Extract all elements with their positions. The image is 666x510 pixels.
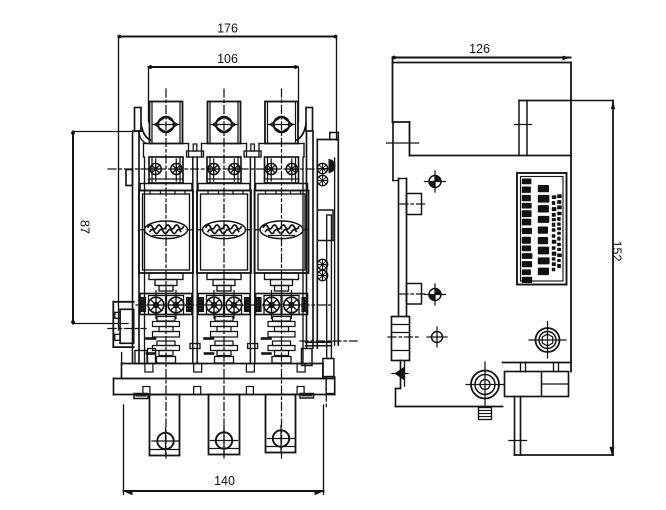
dimension 176 left extension line xyxy=(118,37,120,331)
latch lower block A xyxy=(323,359,334,377)
left top hook bracket xyxy=(141,124,151,140)
latch housing inner edge xyxy=(334,158,336,345)
latch guide frame xyxy=(317,210,333,241)
dimension 106 line xyxy=(149,66,298,68)
nameplate text column 3 (model number) xyxy=(552,194,562,271)
pole 2 interrupter label oval xyxy=(203,221,246,239)
base flange slot xyxy=(297,364,305,373)
left ear inner block xyxy=(120,309,134,343)
pole 1 flexible braid hatch right xyxy=(187,298,193,312)
inter-pole barrier pedestal xyxy=(251,144,255,151)
mounting hole plain xyxy=(432,332,443,343)
side step tick line xyxy=(387,142,419,144)
pole 1 bottom terminal hole xyxy=(157,433,173,449)
pole 2 upper terminal hole xyxy=(216,117,232,133)
pole 1 bottom terminal plate xyxy=(150,395,180,456)
base flange slot xyxy=(145,364,153,373)
svg-text:152: 152 xyxy=(610,241,624,262)
latch bolt xyxy=(317,163,327,173)
pole 1 lower clamp washer bolt xyxy=(148,297,164,313)
rail lower tab centre line xyxy=(400,293,427,295)
nameplate inner frame xyxy=(521,177,564,282)
dimension 106 left extension line xyxy=(148,67,150,122)
pole 3 clamp washer bolt xyxy=(286,163,297,174)
mounting hole target lower xyxy=(429,289,441,301)
pole 1 lower bellows cone xyxy=(149,273,183,280)
pole 3 bottom terminal plate xyxy=(266,395,296,453)
latch bolt xyxy=(317,175,327,185)
pole 2 lower bellows cone xyxy=(207,273,241,280)
pole 1 upper terminal xyxy=(150,102,183,144)
pole 3 upper terminal xyxy=(265,102,298,144)
left ear lower tab xyxy=(115,334,120,340)
bracket foot bottom / dim 152 bottom extension xyxy=(515,454,614,456)
pole 1 top shoulder xyxy=(144,143,150,145)
pole 3 lower clamp washer bolt xyxy=(264,297,280,313)
dimension 106 right extension line xyxy=(298,67,300,122)
dimension 176 line xyxy=(119,36,337,38)
pole 3 upper clamp block xyxy=(265,157,299,183)
base flange slot xyxy=(194,364,202,373)
base left foot xyxy=(134,394,148,399)
bracket legs xyxy=(514,397,516,456)
bolt threaded stem xyxy=(479,408,492,420)
inner frame wall left xyxy=(144,157,146,364)
inter-pole barrier foot xyxy=(190,344,200,349)
pole 1 lower clamp washer bolt xyxy=(168,297,184,313)
right top mounting tab xyxy=(306,108,313,132)
pole 2 centre line xyxy=(223,89,225,458)
pole 2 bottom terminal hole xyxy=(216,432,232,448)
pole 2 upper plate xyxy=(198,184,250,191)
pole 1 contact spring stack xyxy=(157,317,175,322)
dimension 140 right extension line xyxy=(323,405,325,495)
left wall upper tab xyxy=(126,170,133,186)
pole 1 clamp washer bolt xyxy=(171,163,182,174)
pole 3 lower clamp washer bolt xyxy=(284,297,300,313)
big bolt hex head (upper) xyxy=(536,328,560,352)
inner frame wall right xyxy=(302,157,304,364)
inter-pole barrier bars xyxy=(249,157,251,364)
dimension 152 top extension line xyxy=(571,100,613,102)
side view top block xyxy=(393,62,571,64)
pole 3 lower bellows cone xyxy=(265,273,299,280)
pole 3 bottom terminal hole xyxy=(273,430,289,446)
svg-text:140: 140 xyxy=(214,474,235,488)
rail lower tab xyxy=(407,284,422,305)
pole 1 lower contact clamp box xyxy=(140,294,192,315)
latch centre line xyxy=(300,340,357,342)
pole 3 lower contact clamp box xyxy=(256,294,308,315)
pole 3 contact spring stack xyxy=(273,317,291,322)
pole 1 flexible braid hatch left xyxy=(140,298,146,312)
latch bolt xyxy=(317,270,327,280)
base plate slot xyxy=(194,387,201,395)
side view rear top edge xyxy=(519,100,571,102)
dimension 126 line xyxy=(393,57,571,59)
latch foot centre line xyxy=(325,377,327,408)
latch lower block B xyxy=(326,377,335,394)
pole 3 interrupter label oval xyxy=(260,221,303,239)
pole 2 vacuum interrupter body xyxy=(197,191,251,274)
pole 1 centre line xyxy=(165,89,167,458)
pole 2 upper clamp block xyxy=(207,157,241,183)
svg-text:106: 106 xyxy=(217,52,238,66)
dimension 87 line xyxy=(72,132,74,324)
latch bottom bar bottom xyxy=(306,345,332,347)
base upper flange xyxy=(122,363,324,365)
dimension 152 line xyxy=(612,101,614,456)
left wall foot block 2 xyxy=(148,349,156,364)
base plate slot xyxy=(143,387,150,395)
pole 1 upper clamp block xyxy=(149,157,183,183)
nameplate text column 2 (product name) xyxy=(538,185,550,275)
left mounting ear xyxy=(112,302,114,347)
latch bottom bar top xyxy=(306,341,332,343)
right side wall of frame xyxy=(306,131,308,348)
dimension 87 top extension line xyxy=(73,131,143,133)
side view front edge xyxy=(570,63,572,372)
pole 3 clamp washer bolt xyxy=(266,163,277,174)
pole 1 upper plate xyxy=(140,184,192,191)
pole 2 top shoulder xyxy=(202,143,208,145)
latch housing outer edge xyxy=(337,133,339,346)
lower bolt row centre line xyxy=(136,304,331,306)
base plate slot xyxy=(246,387,253,395)
inter-pole barrier bars xyxy=(192,157,194,364)
dimension 140 left extension line xyxy=(123,405,125,495)
left side wall of frame xyxy=(132,131,134,364)
side mounting rail xyxy=(392,122,394,181)
right top hook bracket xyxy=(297,124,307,140)
pole 1 vacuum interrupter body xyxy=(139,191,193,274)
pole 1 upper terminal hole xyxy=(158,117,174,133)
pole 3 flexible braid hatch left xyxy=(256,298,262,312)
nameplate text column 1 (manufacturer) xyxy=(522,179,533,284)
solid pointer arrow xyxy=(395,367,405,381)
left wall foot block xyxy=(135,351,147,364)
pole 2 flexible braid hatch left xyxy=(198,298,204,312)
big bolt with washer (lower middle) xyxy=(471,371,499,399)
mounting hole target upper xyxy=(429,176,441,188)
left top mounting tab xyxy=(135,108,142,132)
pole 3 top shoulder xyxy=(259,143,265,145)
latch bolt xyxy=(317,259,327,269)
pole 3 flexible braid hatch right xyxy=(302,298,308,312)
nameplate outer frame xyxy=(517,173,567,285)
pole 2 lower clamp washer bolt xyxy=(206,297,222,313)
base plate slot xyxy=(297,387,304,395)
base right foot xyxy=(300,394,314,399)
auxiliary latch rail xyxy=(316,140,318,349)
latch lower left block xyxy=(302,349,313,366)
pole 2 bottom terminal plate xyxy=(209,395,240,455)
svg-text:87: 87 xyxy=(78,220,92,234)
dimension 87 bottom extension line xyxy=(73,323,128,325)
pole 1 interrupter label oval xyxy=(145,221,188,239)
pole 2 clamp washer bolt xyxy=(208,163,219,174)
pole 2 lower clamp washer bolt xyxy=(226,297,242,313)
latch cam dark lobe xyxy=(329,159,336,173)
base main plate xyxy=(114,378,335,380)
svg-text:176: 176 xyxy=(217,22,238,36)
left base edge line xyxy=(121,353,123,364)
svg-text:126: 126 xyxy=(469,42,490,56)
pole 1 clamp washer bolt xyxy=(150,163,161,174)
rail upper tab xyxy=(407,194,422,215)
pole 2 contact spring stack xyxy=(215,317,233,322)
pole 3 centre line xyxy=(281,89,283,458)
pole 2 upper terminal xyxy=(208,102,241,144)
inter-pole barrier foot xyxy=(248,344,258,349)
flexible connector stack xyxy=(392,317,410,361)
pole 2 flexible braid hatch right xyxy=(245,298,251,312)
dimension 140 line xyxy=(124,490,324,492)
left ear centre line xyxy=(108,328,146,330)
rail upper tab centre line xyxy=(400,203,427,205)
pole 2 lower contact clamp box xyxy=(198,294,250,315)
left ear upper tab xyxy=(115,312,120,318)
dimension 176 right extension line xyxy=(336,37,338,141)
side view channel bracket xyxy=(518,101,520,156)
inter-pole barrier pedestal xyxy=(193,144,197,151)
latch housing top tab xyxy=(330,132,339,134)
latch push rod xyxy=(327,215,332,359)
pole 3 vacuum interrupter body xyxy=(255,191,309,274)
pole 3 upper terminal hole xyxy=(274,117,290,133)
pole 3 upper plate xyxy=(256,184,308,191)
upper bolt row centre line xyxy=(108,168,332,170)
latch housing top edge xyxy=(317,139,338,141)
pole 2 clamp washer bolt xyxy=(229,163,240,174)
base flange slot xyxy=(246,364,254,373)
side view bottom-left outline xyxy=(400,361,402,389)
lower bracket top edge xyxy=(503,362,572,364)
lower bracket block xyxy=(505,372,569,397)
